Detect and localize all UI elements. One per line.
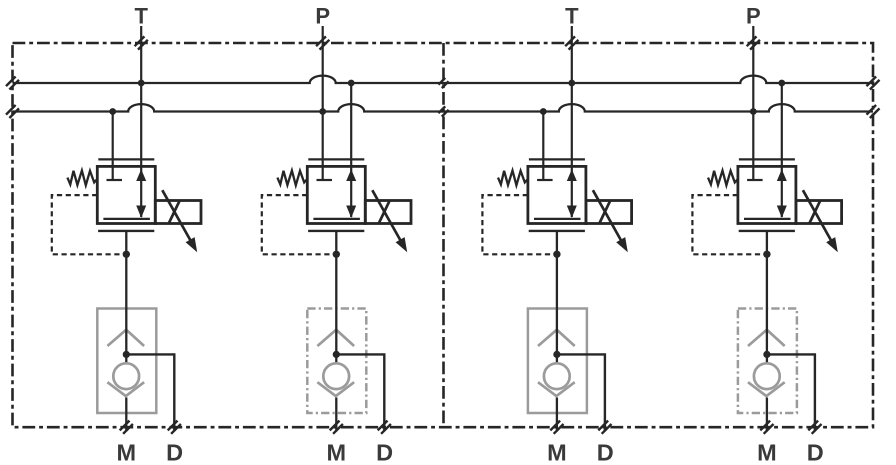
valve V2 inner bottom line [313,218,360,220]
junction dot T3 on T bus [568,80,575,87]
check valve CV4 ball [754,363,780,389]
break mark, T line at top border (section 1) [135,36,148,49]
svg-text:M: M [117,440,137,465]
svg-text:D: D [376,440,393,465]
check valve CV1 ball [113,363,139,389]
junction dot on T bus (section 4) [778,80,785,87]
proportional solenoid S2 box [365,201,411,224]
spring (section 3) [498,171,527,186]
wire valve V4 right port from T bus [781,83,783,217]
spring (section 4) [708,171,737,186]
solenoid S2 cross line [379,201,390,224]
check valve CV1 chevron (flow direction) [107,330,144,346]
enclosure border (valve bank modules 1 and 2, dash-dot frame) [13,43,874,427]
svg-text:P: P [315,3,330,28]
break mark, T bus at left border [6,77,19,90]
svg-text:M: M [327,440,347,465]
wire valve V4 output to check valve [766,231,768,363]
junction dot on P bus (section 3) [540,108,547,115]
wire valve V2 right port from T bus [350,83,352,217]
pilot line (dashed, section 3) [482,195,557,254]
valve V4 blocked port tee bar [747,179,763,181]
junction dot M/D branch (section 2) [333,351,340,358]
wire valve V1 output to check valve [125,231,127,363]
break mark, P line at top border (section 4) [747,36,760,49]
svg-text:T: T [134,3,148,28]
proportional solenoid S4 box [796,201,842,224]
junction dot T1 on T bus [138,80,145,87]
valve V4 body box [738,166,796,223]
valve V2 subplate line [308,230,364,232]
svg-text:P: P [746,3,761,28]
solenoid S4 cross line [809,201,820,224]
valve V4 subplate line [739,230,795,232]
check valve CV2 ball [323,363,349,389]
valve V4 flow arrow down head [777,206,787,218]
solenoid S3 cross line [599,201,610,224]
check valve CV2 enclosure (dash-dot gray box) [307,309,366,414]
break mark, P bus at left border [6,105,19,118]
wire valve V2 output to check valve [335,231,337,363]
check valve CV2 chevron (flow direction) [317,330,354,346]
wire valve V3 left port from P bus [542,112,544,181]
wire M port lower lead (section 1) [125,398,127,432]
spring (section 1) [67,171,96,186]
break mark, M line at bottom border (section 1) [120,421,133,434]
check valve CV1 enclosure (solid gray box) [97,309,156,414]
wire branch to D port (section 3) [557,354,605,431]
break mark, P bus at right border [867,105,880,118]
break mark, D line at bottom border (section 4) [808,421,821,434]
pilot line (dashed, section 4) [692,195,767,254]
wire branch to D port (section 2) [336,354,384,431]
junction dot on T bus (section 2) [348,80,355,87]
check valve CV4 chevron (flow direction) [748,330,785,346]
break mark, M line at bottom border (section 4) [760,421,773,434]
valve V3 blocked port tee bar [537,179,553,181]
junction dot P4 on P bus [750,108,757,115]
valve V3 body box [528,166,586,223]
solenoid S4 adjustment arrow [803,190,838,252]
break mark, P bus at module divider [438,106,448,116]
check valve CV3 ball [544,363,570,389]
valve V4 flow arrow up head [777,169,787,181]
check valve CV4 enclosure (dash-dot gray box) [738,309,797,414]
pilot junction dot (section 4) [763,251,770,258]
pilot junction dot (section 2) [333,251,340,258]
pilot line (dashed, section 1) [52,195,127,254]
valve V4 top cover line [739,158,795,160]
break mark, M line at bottom border (section 2) [330,421,343,434]
proportional solenoid S1 box [155,201,201,224]
wire T port down-lead (section 3) [571,26,573,217]
break mark, D line at bottom border (section 3) [598,421,611,434]
valve V3 top cover line [529,158,585,160]
wire branch to D port (section 4) [767,354,815,431]
pilot junction dot (section 1) [123,251,130,258]
check valve CV4 ball seat V [748,382,785,396]
check valve CV3 ball seat V [538,382,575,396]
check valve CV3 chevron (flow direction) [538,330,575,346]
valve V1 flow arrow down head [136,206,146,218]
valve V3 flow arrow down head [567,206,577,218]
solenoid S1 cross line [169,201,180,224]
solenoid S3 adjustment arrow [593,190,628,252]
wire T port down-lead (section 1) [140,26,142,217]
wire M port lower lead (section 2) [335,398,337,432]
junction dot M/D branch (section 4) [763,351,770,358]
svg-text:D: D [166,440,183,465]
wire M port lower lead (section 4) [766,398,768,432]
wire M port lower lead (section 3) [556,398,558,432]
wire P port down-lead (section 4) [752,26,754,180]
wire branch to D port (section 1) [126,354,174,431]
break mark, T bus at right border [867,77,880,90]
wire valve V1 left port from P bus [112,112,114,181]
valve V1 top cover line [98,158,154,160]
proportional solenoid S3 box [586,201,632,224]
svg-text:D: D [807,440,824,465]
svg-text:M: M [547,440,567,465]
svg-text:M: M [757,440,777,465]
check valve CV2 ball seat V [317,382,354,396]
bus line T (upper horizontal manifold line with crossover hops) [13,76,874,83]
junction dot M/D branch (section 1) [123,351,130,358]
junction dot M/D branch (section 3) [553,351,560,358]
break mark, P line at top border (section 2) [316,36,329,49]
module divider (dash-dot line between module 1 and module 2) [442,43,445,427]
valve V3 subplate line [529,230,585,232]
valve V2 blocked port tee bar [317,179,333,181]
check valve CV1 ball seat V [107,382,144,396]
svg-text:T: T [565,3,579,28]
valve V2 flow arrow down head [346,206,356,218]
valve V4 inner bottom line [744,218,791,220]
junction dot on P bus (section 1) [109,108,116,115]
valve V1 inner bottom line [103,218,149,220]
valve V2 body box [307,166,365,223]
break mark, M line at bottom border (section 3) [550,421,563,434]
break mark, D line at bottom border (section 2) [378,421,391,434]
bus line P (lower horizontal manifold line with crossover hops) [13,104,874,111]
valve V1 flow arrow up head [136,169,146,181]
pilot line (dashed, section 2) [262,195,337,254]
valve V3 inner bottom line [534,218,581,220]
valve V1 body box [97,166,155,223]
valve V2 flow arrow up head [346,169,356,181]
wire valve V3 output to check valve [556,231,558,363]
valve V3 flow arrow up head [567,169,577,181]
pilot junction dot (section 3) [553,251,560,258]
valve V1 blocked port tee bar [107,179,123,181]
valve V2 top cover line [308,158,364,160]
spring (section 2) [277,171,306,186]
break mark, T bus at module divider [438,78,448,88]
solenoid S2 adjustment arrow [372,190,407,252]
break mark, D line at bottom border (section 1) [168,421,181,434]
wire P port down-lead (section 2) [322,26,324,180]
valve V1 subplate line [98,230,154,232]
break mark, T line at top border (section 3) [565,36,578,49]
junction dot P2 on P bus [319,108,326,115]
solenoid S1 adjustment arrow [162,190,197,252]
check valve CV3 enclosure (solid gray box) [528,309,587,414]
svg-text:D: D [597,440,614,465]
